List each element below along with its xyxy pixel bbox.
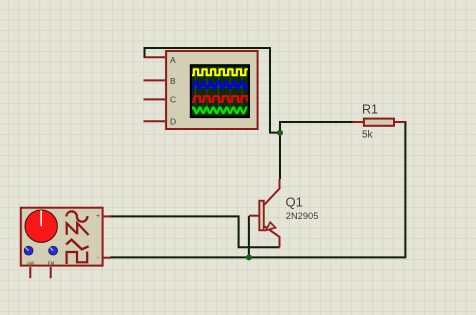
triangle symbol glyph: [66, 240, 89, 250]
svg-text:FM: FM: [48, 261, 55, 266]
generator minus pin stub: [104, 257, 111, 259]
generator amplitude knob (red): [25, 210, 57, 242]
wire collector drop from node: [279, 131, 281, 179]
waveform channel C red square: [192, 96, 248, 102]
AM knob (blue): [24, 246, 33, 255]
waveform channel A yellow square: [192, 69, 249, 75]
oscilloscope screen background: [192, 67, 248, 116]
oscilloscope screen frame: [190, 64, 250, 118]
transistor Q1: [249, 179, 280, 247]
wire generator plus to emitter: [110, 216, 280, 247]
junction dot base-bus: [246, 254, 252, 260]
oscilloscope body: [166, 51, 258, 129]
Q1 emitter pin: [265, 226, 280, 247]
generator bottom stub 1: [29, 267, 31, 278]
wire R1 right to ground bus: [110, 122, 405, 257]
screen graticule: [192, 67, 248, 116]
svg-text:R1: R1: [362, 103, 378, 117]
signal generator body: [21, 208, 103, 266]
pin stub B: [144, 79, 166, 81]
square symbol glyph: [67, 252, 88, 265]
wire scope pin A to collector node: [145, 48, 279, 133]
wire node to R1 left (jog up): [280, 122, 354, 133]
svg-text:-: -: [97, 256, 99, 262]
pin stub C: [144, 98, 166, 100]
waveform channel D green sine: [192, 108, 247, 114]
svg-text:C: C: [170, 95, 176, 105]
pin stub A: [145, 56, 166, 58]
svg-text:Q1: Q1: [286, 195, 303, 210]
Q1 emitter arrow (PNP): [266, 222, 276, 230]
resistor R1: [364, 119, 394, 126]
svg-text:2N2905: 2N2905: [286, 211, 319, 221]
wire base to ground bus: [248, 216, 250, 257]
FM knob pointer: [50, 248, 53, 251]
svg-text:D: D: [170, 117, 176, 127]
FM knob (blue): [49, 246, 58, 255]
Q1 base bar: [259, 201, 264, 231]
resistor R1 pin right: [395, 121, 405, 123]
Q1 base pin: [249, 215, 259, 217]
junction node collector: [277, 130, 283, 136]
svg-text:AM: AM: [27, 261, 34, 266]
svg-text:A: A: [170, 55, 176, 65]
generator bottom stub 2: [50, 267, 52, 278]
pin stub D: [144, 120, 166, 122]
resistor R1 pin left: [353, 121, 363, 123]
red knob pointer: [40, 210, 42, 226]
generator plus pin stub: [104, 215, 111, 217]
svg-text:+: +: [96, 214, 100, 220]
waveform channel B blue sine: [192, 82, 247, 89]
svg-text:5k: 5k: [362, 130, 374, 141]
AM knob pointer: [26, 248, 29, 251]
svg-text:B: B: [170, 76, 176, 86]
Q1 collector pin: [265, 179, 280, 205]
sine symbol glyph: [66, 211, 87, 221]
sawtooth symbol glyph: [67, 223, 89, 235]
